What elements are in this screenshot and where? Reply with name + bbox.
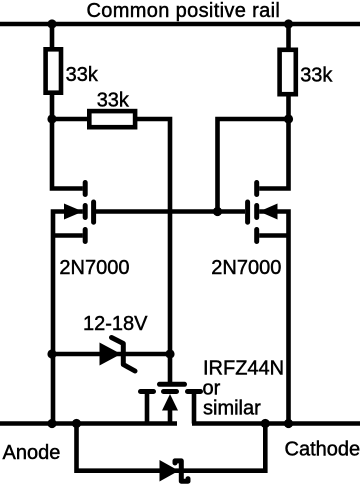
svg-text:similar: similar [203,398,261,420]
svg-text:33k: 33k [300,65,333,87]
svg-text:or: or [203,378,221,400]
svg-text:33k: 33k [97,90,130,112]
svg-text:IRFZ44N: IRFZ44N [203,358,284,380]
svg-text:Common positive rail: Common positive rail [87,0,281,22]
svg-text:2N7000: 2N7000 [211,257,281,279]
svg-text:Anode: Anode [3,442,61,464]
svg-text:12-18V: 12-18V [83,313,148,335]
svg-text:Cathode: Cathode [285,439,360,461]
svg-text:33k: 33k [66,64,99,86]
svg-text:2N7000: 2N7000 [59,257,129,279]
